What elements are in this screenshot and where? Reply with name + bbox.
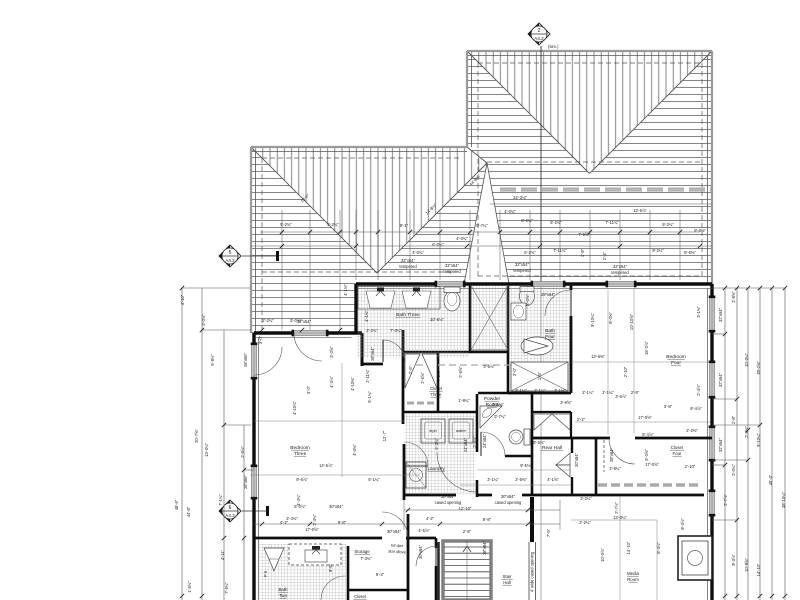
- svg-text:Closet: Closet: [671, 445, 684, 450]
- svg-text:32"x54": 32"x54": [718, 372, 723, 387]
- svg-text:4'-2": 4'-2": [426, 516, 435, 521]
- svg-text:28"x64": 28"x64": [370, 346, 375, 361]
- svg-text:A4.2: A4.2: [225, 258, 235, 263]
- svg-text:cased opening: cased opening: [435, 500, 462, 505]
- svg-text:5'-2⅞": 5'-2⅞": [434, 438, 439, 450]
- svg-text:10'-0⅞": 10'-0⅞": [600, 548, 605, 562]
- svg-text:3'-0": 3'-0": [306, 385, 311, 394]
- svg-text:2'-1⅛": 2'-1⅛": [554, 388, 566, 393]
- svg-text:28"x66": 28"x66": [243, 352, 248, 367]
- svg-text:9'-5⅛": 9'-5⅛": [520, 463, 532, 468]
- svg-text:5'-1¼": 5'-1¼": [368, 477, 380, 482]
- svg-text:7'-11¾": 7'-11¾": [553, 248, 567, 253]
- svg-text:2'-6⅝": 2'-6⅝": [420, 372, 425, 384]
- svg-text:28"x84": 28"x84": [609, 447, 614, 462]
- svg-text:24"x84": 24"x84": [482, 433, 487, 448]
- svg-text:4'-10¾": 4'-10¾": [292, 401, 297, 415]
- svg-text:2'-8": 2'-8": [731, 415, 736, 424]
- svg-text:1'-8": 1'-8": [580, 248, 585, 257]
- svg-text:9'-3": 9'-3": [376, 572, 385, 577]
- svg-text:Inf dwr: Inf dwr: [391, 543, 404, 549]
- svg-text:Stair: Stair: [502, 574, 512, 579]
- svg-text:5'-10¼": 5'-10¼": [756, 433, 761, 447]
- svg-text:3'-6⅞": 3'-6⅞": [483, 364, 495, 369]
- svg-text:4' wide cased opening: 4' wide cased opening: [530, 551, 535, 592]
- svg-text:34'-3⅛": 34'-3⅛": [513, 195, 527, 200]
- svg-text:8'-8": 8'-8": [338, 520, 347, 525]
- svg-text:2'-2¼": 2'-2¼": [580, 496, 592, 501]
- svg-text:7'-11¾": 7'-11¾": [605, 220, 619, 225]
- svg-text:9'-2¼": 9'-2¼": [662, 222, 674, 227]
- svg-text:3'-1⅜": 3'-1⅜": [696, 306, 701, 318]
- svg-text:2'-7⅞": 2'-7⅞": [614, 502, 619, 514]
- svg-text:2'-8": 2'-8": [463, 529, 472, 534]
- svg-text:2'-2¾": 2'-2¾": [366, 328, 378, 333]
- svg-text:2'-1¼": 2'-1¼": [602, 390, 614, 395]
- svg-text:3'-0⅝": 3'-0⅝": [525, 294, 530, 306]
- svg-text:4'-0⅜": 4'-0⅜": [352, 444, 357, 456]
- svg-text:10'-9⅝": 10'-9⅝": [744, 558, 749, 572]
- svg-text:2'-10": 2'-10": [623, 366, 628, 377]
- svg-text:3'-0": 3'-0": [258, 335, 263, 344]
- svg-text:8'-6⅜": 8'-6⅜": [684, 250, 696, 255]
- svg-text:14'-6⅞": 14'-6⅞": [319, 463, 333, 468]
- svg-text:tempered: tempered: [443, 269, 461, 274]
- svg-text:2'-4": 2'-4": [602, 251, 607, 260]
- svg-text:4'-1⅜": 4'-1⅜": [343, 284, 348, 296]
- svg-text:A4.2: A4.2: [534, 36, 544, 41]
- svg-text:Storage: Storage: [354, 549, 370, 554]
- svg-text:3'-0⅝": 3'-0⅝": [329, 346, 334, 358]
- svg-text:tempered: tempered: [399, 264, 417, 269]
- svg-text:28"x64": 28"x64": [541, 292, 556, 297]
- svg-text:5'-2¼": 5'-2¼": [327, 222, 339, 227]
- svg-text:4'-0¾": 4'-0¾": [504, 209, 516, 214]
- svg-text:5'-0⅞": 5'-0⅞": [290, 318, 302, 323]
- svg-text:2'-11¾": 2'-11¾": [365, 369, 370, 383]
- svg-text:tempered: tempered: [513, 268, 531, 273]
- svg-text:32"x54": 32"x54": [613, 264, 628, 269]
- svg-text:2'-4⅞": 2'-4⅞": [696, 384, 701, 396]
- svg-text:9'-1": 9'-1": [400, 223, 409, 228]
- svg-text:A4.3: A4.3: [225, 513, 235, 518]
- svg-text:2'-8⅝": 2'-8⅝": [731, 291, 736, 303]
- svg-text:32"x54": 32"x54": [401, 258, 416, 263]
- svg-text:2'-2⅜": 2'-2⅜": [686, 428, 698, 433]
- svg-text:12'-10": 12'-10": [459, 506, 472, 511]
- svg-text:32"x54": 32"x54": [515, 262, 530, 267]
- svg-text:7'-5⅝": 7'-5⅝": [578, 232, 590, 237]
- svg-text:9'-6": 9'-6": [328, 563, 333, 572]
- svg-text:7'-5": 7'-5": [546, 528, 551, 537]
- svg-text:3'-7¼": 3'-7¼": [494, 414, 506, 419]
- svg-text:48'-10¼": 48'-10¼": [781, 491, 786, 508]
- svg-text:9'-3⅞": 9'-3⅞": [731, 554, 736, 566]
- svg-text:Room: Room: [627, 577, 639, 582]
- svg-text:13'-6⅜": 13'-6⅜": [591, 354, 605, 359]
- svg-text:P 6: P 6: [263, 570, 268, 577]
- svg-text:30"x84": 30"x84": [574, 452, 579, 467]
- svg-text:48'-6": 48'-6": [174, 499, 179, 510]
- svg-text:7'-5⅛": 7'-5⅛": [436, 370, 441, 382]
- svg-text:13'-0¼": 13'-0¼": [613, 515, 627, 520]
- svg-text:30"x84": 30"x84": [329, 504, 344, 509]
- svg-text:4'-1⅝": 4'-1⅝": [547, 477, 559, 482]
- svg-text:6: 6: [229, 505, 232, 511]
- svg-text:44'-8": 44'-8": [186, 506, 191, 517]
- svg-text:Bath: Bath: [278, 587, 288, 592]
- svg-text:1'-5": 1'-5": [537, 371, 542, 380]
- svg-text:2'-8⅜": 2'-8⅜": [744, 426, 749, 438]
- svg-text:4'-4¾": 4'-4¾": [296, 494, 301, 506]
- svg-text:10'-0¼": 10'-0¼": [744, 353, 749, 367]
- svg-text:28"x84": 28"x84": [482, 540, 487, 555]
- svg-text:Hall: Hall: [503, 580, 511, 585]
- svg-text:10'-6⅛": 10'-6⅛": [430, 317, 444, 322]
- svg-text:Three: Three: [431, 392, 443, 397]
- svg-text:7'-5¼": 7'-5¼": [224, 582, 229, 594]
- svg-text:cased opening: cased opening: [495, 500, 522, 505]
- svg-text:3'-5⅜": 3'-5⅜": [492, 402, 504, 407]
- svg-text:17'-0⅝": 17'-0⅝": [305, 527, 319, 532]
- svg-text:8'-8": 8'-8": [483, 517, 492, 522]
- svg-text:10'-10⅝": 10'-10⅝": [629, 313, 634, 330]
- svg-text:32"x54": 32"x54": [445, 263, 460, 268]
- svg-text:7'-3¾": 7'-3¾": [360, 556, 372, 561]
- svg-text:4'-10⅜": 4'-10⅜": [350, 377, 355, 391]
- svg-text:30"x84": 30"x84": [501, 494, 516, 499]
- svg-text:2'-8¼": 2'-8¼": [609, 466, 621, 471]
- svg-text:8'-4⅞": 8'-4⅞": [642, 432, 654, 437]
- svg-text:1'-5½": 1'-5½": [187, 581, 192, 593]
- svg-text:8'-0¼": 8'-0¼": [521, 218, 533, 223]
- svg-text:8'-6⅜": 8'-6⅜": [694, 228, 706, 233]
- svg-text:8'-4⅞": 8'-4⅞": [690, 406, 702, 411]
- svg-text:8'-5⅛": 8'-5⅛": [533, 440, 545, 445]
- svg-text:6'-0⅝": 6'-0⅝": [644, 449, 649, 461]
- svg-text:2'-6⅞": 2'-6⅞": [472, 436, 477, 448]
- svg-text:9'-7¼": 9'-7¼": [476, 223, 488, 228]
- svg-text:17'-0⅝": 17'-0⅝": [645, 462, 659, 467]
- svg-text:3'-1¼": 3'-1¼": [487, 477, 499, 482]
- svg-text:star dlove: star dlove: [388, 549, 407, 555]
- svg-text:dryer: dryer: [429, 429, 438, 433]
- svg-text:3'-9⅝": 3'-9⅝": [560, 400, 572, 405]
- svg-text:2'-1¼": 2'-1¼": [582, 390, 594, 395]
- svg-text:3'-0": 3'-0": [512, 367, 517, 376]
- svg-text:30"x84": 30"x84": [441, 494, 456, 499]
- svg-text:9'-10¼": 9'-10¼": [590, 313, 595, 327]
- svg-text:19'-2⅝": 19'-2⅝": [756, 361, 761, 375]
- svg-text:2'-10": 2'-10": [685, 464, 696, 469]
- svg-text:45'-4": 45'-4": [768, 474, 773, 485]
- svg-text:(sim.): (sim.): [548, 44, 559, 49]
- svg-text:2'-8⅞": 2'-8⅞": [240, 446, 245, 458]
- svg-text:30"x84": 30"x84": [387, 529, 402, 534]
- svg-text:30"x84": 30"x84": [418, 544, 423, 559]
- svg-text:2'-4¾": 2'-4¾": [286, 516, 298, 521]
- svg-text:Closet: Closet: [430, 386, 443, 391]
- svg-text:washer: washer: [456, 429, 467, 433]
- svg-text:9'-2¼": 9'-2¼": [652, 248, 664, 253]
- svg-text:32"x54": 32"x54": [718, 307, 723, 322]
- svg-text:15'-2⅞": 15'-2⅞": [644, 341, 649, 355]
- svg-text:5'-8½": 5'-8½": [210, 354, 215, 366]
- svg-text:2'-2": 2'-2": [577, 417, 586, 422]
- svg-text:Closet: Closet: [354, 594, 367, 599]
- svg-text:2'-1¼": 2'-1¼": [515, 388, 527, 393]
- svg-text:1'-8¼": 1'-8¼": [458, 398, 470, 403]
- svg-text:2'-6⅝": 2'-6⅝": [458, 366, 463, 378]
- svg-text:32"x54": 32"x54": [718, 437, 723, 452]
- svg-text:4'-11": 4'-11": [220, 549, 225, 560]
- svg-text:28"x66": 28"x66": [243, 474, 248, 489]
- svg-text:3'-8": 3'-8": [664, 404, 673, 409]
- svg-text:Media: Media: [627, 571, 640, 576]
- svg-text:2: 2: [538, 28, 541, 34]
- svg-text:2'-2¼": 2'-2¼": [262, 318, 274, 323]
- svg-text:2'-1¼": 2'-1¼": [534, 388, 546, 393]
- svg-text:24"x84": 24"x84": [463, 437, 468, 452]
- svg-text:14'-10": 14'-10": [756, 563, 761, 576]
- svg-text:2'-5⅜": 2'-5⅜": [515, 477, 527, 482]
- svg-text:5'-2¾": 5'-2¾": [280, 222, 292, 227]
- svg-text:8'-0⅜": 8'-0⅜": [608, 312, 613, 324]
- svg-text:Four: Four: [672, 451, 682, 456]
- svg-text:7'-1¾": 7'-1¾": [218, 494, 223, 506]
- svg-text:17'-0⅝": 17'-0⅝": [638, 415, 652, 420]
- svg-text:4'-0¾": 4'-0¾": [412, 250, 424, 255]
- svg-text:9'-5⅞": 9'-5⅞": [296, 477, 308, 482]
- svg-text:12'-7": 12'-7": [382, 430, 387, 441]
- svg-text:2'-6": 2'-6": [408, 365, 413, 374]
- svg-text:5: 5: [229, 250, 232, 256]
- svg-text:14'-10": 14'-10": [626, 541, 631, 554]
- svg-text:2'-0¼": 2'-0¼": [731, 464, 736, 476]
- svg-text:20'-7⅝": 20'-7⅝": [194, 429, 199, 443]
- svg-text:8'-4⅞": 8'-4⅞": [656, 542, 661, 554]
- svg-text:3'-0⅛": 3'-0⅛": [201, 314, 206, 326]
- svg-text:2'-2¼": 2'-2¼": [579, 520, 591, 525]
- svg-text:6'-0¾": 6'-0¾": [432, 242, 444, 247]
- svg-text:2'-9": 2'-9": [631, 390, 640, 395]
- svg-text:5'-1¾": 5'-1¾": [367, 391, 372, 403]
- svg-text:2'-7⅞": 2'-7⅞": [723, 494, 728, 506]
- svg-text:2'-4¾": 2'-4¾": [312, 514, 317, 526]
- svg-text:tempered: tempered: [611, 270, 629, 275]
- svg-text:4'-10": 4'-10": [180, 294, 185, 305]
- svg-text:13'-0¼": 13'-0¼": [204, 443, 209, 457]
- svg-text:5'-2¾": 5'-2¾": [524, 250, 536, 255]
- svg-text:9'-3⅞": 9'-3⅞": [680, 518, 685, 530]
- svg-text:7'-0¼": 7'-0¼": [390, 328, 402, 333]
- svg-text:4'-1⅜": 4'-1⅜": [364, 310, 369, 322]
- svg-text:4'-5⅞": 4'-5⅞": [418, 528, 430, 533]
- svg-text:13'-6⅞": 13'-6⅞": [633, 208, 647, 213]
- svg-text:5'-2¾": 5'-2¾": [550, 220, 562, 225]
- svg-text:4'-3⅞": 4'-3⅞": [329, 376, 334, 388]
- svg-text:4'-0¾": 4'-0¾": [456, 236, 468, 241]
- svg-text:Two: Two: [279, 593, 288, 598]
- svg-text:3'-6⅞": 3'-6⅞": [615, 394, 627, 399]
